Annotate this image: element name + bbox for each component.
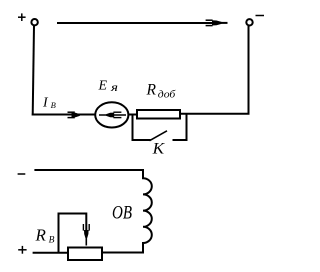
wire (right vertical from − terminal down) — [248, 26, 250, 115]
terminal − (top right) — [246, 19, 252, 25]
terminal + (armature supply, top left) — [31, 19, 37, 25]
wire (from R_доб right side to right vertical) — [180, 113, 250, 115]
rheostat slider tap (with down arrow onto R_в) — [59, 214, 90, 253]
wire (armature row, left horizontal) — [32, 114, 95, 116]
wire (junction between armature and R_доб) — [128, 114, 137, 116]
label I_B (field current) — [42, 96, 56, 111]
resistor R_доб (box) — [137, 110, 180, 119]
EMF arrow inside armature (pointing left) — [99, 112, 126, 117]
rheostat R_в (box) — [68, 248, 102, 261]
svg-text:K: K — [151, 140, 164, 157]
wire (field circuit top horizontal) — [34, 169, 144, 171]
label + (top left polarity) — [18, 13, 26, 21]
svg-text:R: R — [146, 82, 157, 99]
wire (left vertical from + terminal down to armature row) — [33, 26, 34, 116]
label E_я (armature EMF) — [98, 78, 119, 93]
svg-text:R: R — [35, 225, 47, 244]
label + (field supply polarity) — [18, 246, 26, 254]
switch K (shorting switch across R_доб) — [132, 114, 188, 141]
current arrow I_B (pointing right) — [68, 112, 80, 117]
svg-text:ОВ: ОВ — [112, 203, 132, 224]
wire (field circuit bottom, coil to rheostat) — [102, 252, 144, 254]
field winding ОВ (coil, 4 half-turns) — [143, 170, 152, 253]
svg-text:доб: доб — [158, 88, 176, 100]
wire (top horizontal line) — [57, 22, 213, 24]
label R_доб (additional resistance) — [146, 82, 176, 101]
svg-text:я: я — [110, 82, 118, 94]
label − (field supply polarity) — [18, 173, 26, 175]
label − (top right polarity) — [256, 15, 265, 17]
armature E_я (machine circle) — [95, 102, 128, 127]
wire (rheostat to + supply) — [33, 252, 68, 254]
current arrow (top wire, pointing right) — [206, 20, 228, 25]
svg-text:B: B — [49, 236, 55, 246]
label R_в (field rheostat) — [35, 225, 55, 245]
svg-text:B: B — [51, 100, 56, 110]
svg-text:E: E — [98, 78, 108, 93]
